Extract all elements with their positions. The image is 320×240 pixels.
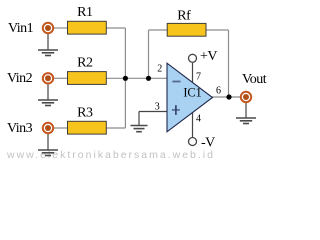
- svg-text:R2: R2: [77, 56, 93, 71]
- svg-text:Rf: Rf: [177, 9, 191, 24]
- ground under Vin3: [38, 150, 58, 156]
- wire Vin3 to R3: [53, 127, 68, 129]
- svg-text:2: 2: [157, 63, 162, 74]
- wire feedback right vertical: [228, 30, 230, 97]
- inverting input marker: [172, 81, 180, 83]
- non-inverting input marker: [172, 109, 180, 111]
- ground at pin 3: [131, 126, 148, 132]
- wire Vin2 terminal to ground: [47, 84, 49, 100]
- wire Vin2 to R2: [53, 77, 68, 79]
- wire R3 to bus: [106, 127, 125, 129]
- svg-text:Vin2: Vin2: [7, 71, 33, 86]
- svg-text:Vin1: Vin1: [8, 21, 34, 36]
- terminal Vout: [241, 92, 251, 102]
- wire R2 to op-amp pin 2: [106, 77, 167, 79]
- wire op-amp output to Vout: [211, 96, 240, 98]
- ground under Vin2: [38, 100, 58, 106]
- wire Vin3 terminal to ground: [47, 134, 49, 150]
- ground under Vout: [236, 118, 256, 124]
- wire bus vertical: [124, 28, 126, 128]
- resistor R2: [68, 56, 107, 85]
- svg-text:Vout: Vout: [242, 72, 267, 87]
- op-amp IC1: [167, 63, 213, 132]
- terminal Vin3: [43, 123, 53, 133]
- wire Vin1 terminal to ground: [47, 34, 49, 50]
- node junction feedback to output: [226, 94, 231, 99]
- resistor Rf: [167, 9, 206, 37]
- terminal Vin2: [43, 73, 53, 83]
- svg-text:IC1: IC1: [183, 85, 201, 99]
- svg-text:www.elektronikabersama.web.id: www.elektronikabersama.web.id: [6, 149, 215, 161]
- wire pin 7: [192, 63, 194, 83]
- wire feedback left vertical: [148, 30, 150, 78]
- wire pin 3 to ground: [138, 112, 140, 126]
- resistor R1: [68, 5, 107, 34]
- svg-text:-V: -V: [201, 136, 215, 151]
- power terminal -V: [189, 136, 216, 151]
- terminal Vin1: [43, 23, 53, 33]
- wire Rf to right corner: [206, 29, 229, 31]
- node junction R1/R3 bus to pin 2: [123, 76, 128, 81]
- power terminal +V: [189, 49, 218, 64]
- ground under Vin1: [38, 50, 58, 56]
- svg-text:Vin3: Vin3: [7, 121, 33, 136]
- svg-text:7: 7: [196, 72, 201, 83]
- svg-text:R1: R1: [77, 5, 93, 20]
- svg-text:4: 4: [196, 114, 201, 125]
- svg-text:R3: R3: [77, 106, 93, 121]
- wire feedback to Rf: [149, 29, 168, 31]
- wire R1 to bus: [106, 27, 125, 29]
- wire pin 4: [192, 112, 194, 137]
- svg-text:3: 3: [155, 101, 160, 112]
- wire pin 3 horizontal: [139, 111, 167, 113]
- svg-text:+V: +V: [200, 49, 217, 64]
- svg-text:6: 6: [216, 86, 221, 97]
- resistor R3: [68, 106, 107, 135]
- wire Vin1 to R1: [53, 27, 68, 29]
- wire Vout terminal to ground: [245, 103, 247, 118]
- node junction feedback to pin 2: [146, 76, 151, 81]
